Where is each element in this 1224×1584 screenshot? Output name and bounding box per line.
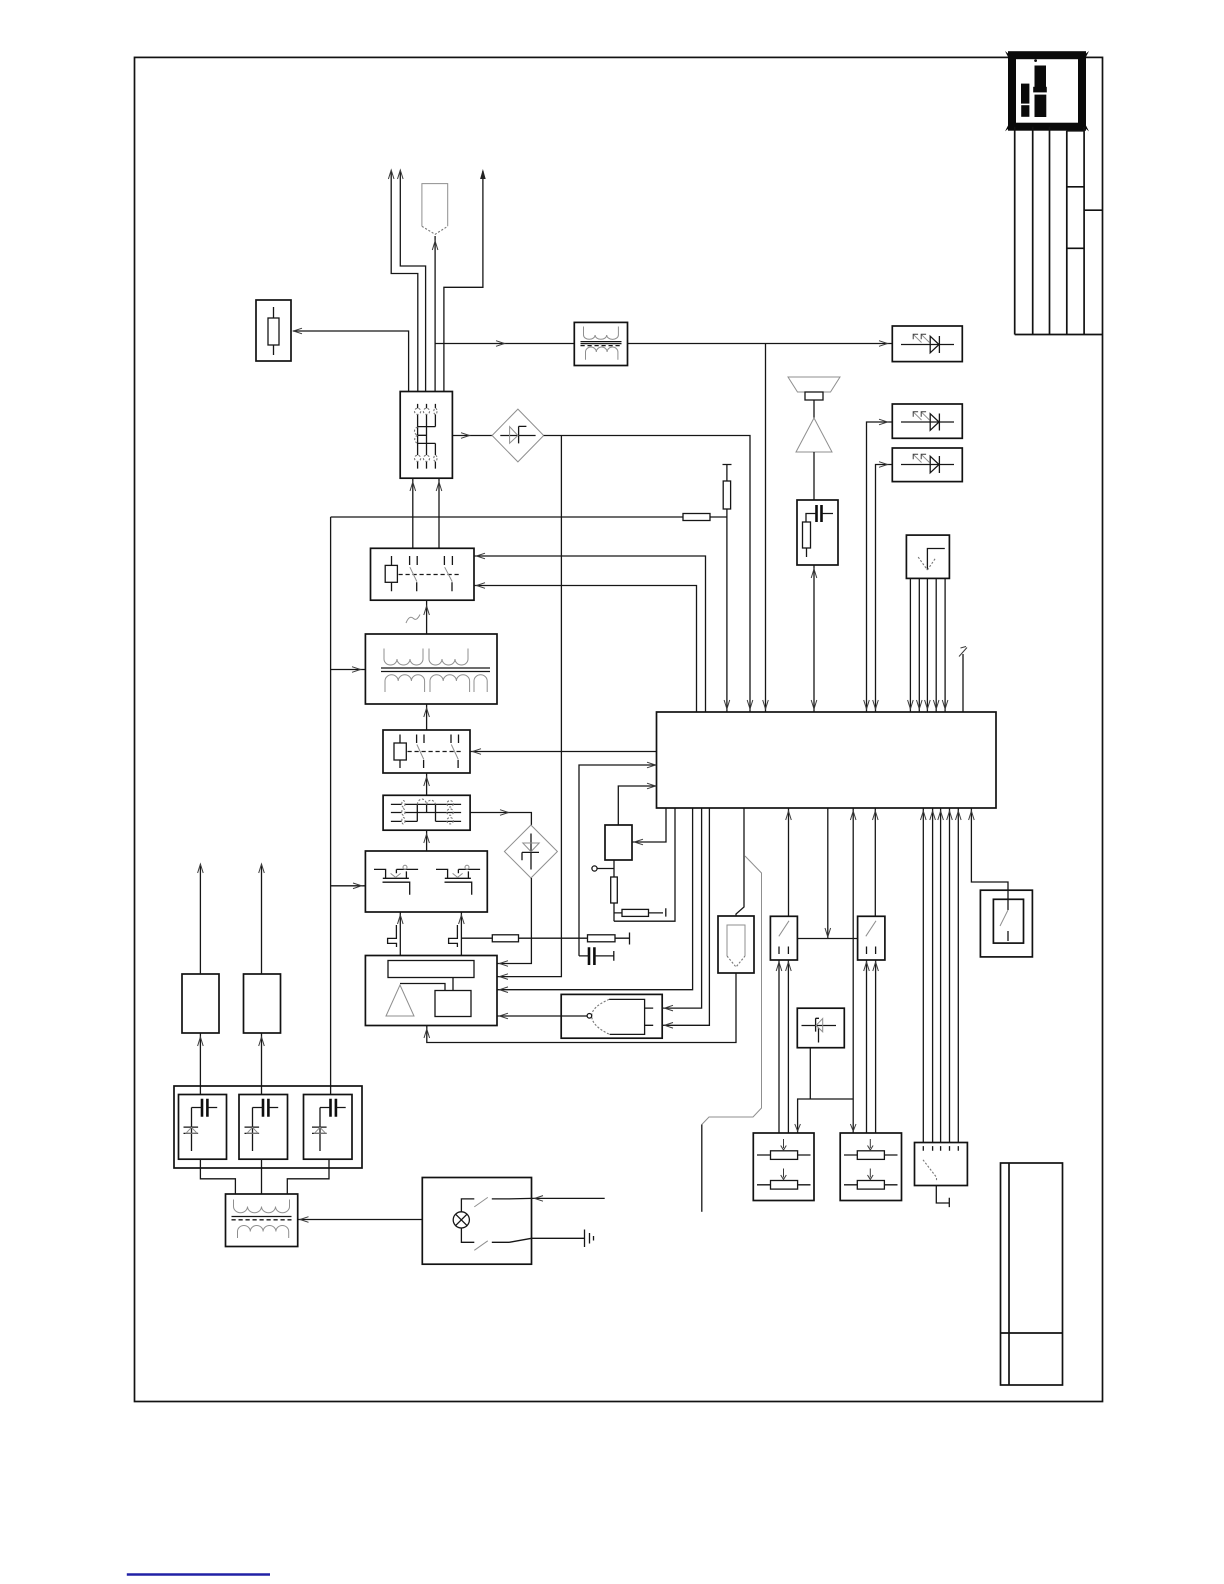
U3 input1 wire to ECU — [662, 808, 701, 1008]
MOSFET 1 symbol — [374, 869, 418, 894]
radical module pin 1 — [909, 578, 911, 712]
radical module pin 4 — [935, 578, 937, 712]
U3 input stubs — [645, 1008, 654, 1025]
cap cell 2 box — [239, 1095, 288, 1160]
T3 primary coil — [234, 1200, 290, 1213]
indicator LED box L3 — [892, 448, 962, 482]
sensor output wire to ECU — [632, 808, 666, 842]
K1 coil — [391, 556, 393, 591]
lamp symbol — [453, 1212, 469, 1228]
arrow down into ECU (x750) — [747, 700, 753, 709]
fuse element — [273, 307, 275, 355]
logo text blob column right — [1035, 66, 1047, 90]
breaker pole 2 — [426, 404, 428, 469]
D arrow onto resistor 2 — [868, 1169, 874, 1180]
ECU left pin wire to cap net (y765) — [579, 765, 657, 956]
gate connector bracket 2 — [449, 925, 458, 947]
sensor divider resistor R8 — [614, 908, 666, 916]
D2 lower wire to driver pin1 — [497, 878, 531, 964]
wire ECU to E pin2 — [932, 808, 934, 1143]
suppression filter rect 2 — [244, 974, 281, 1033]
link wire SA-SB — [797, 938, 857, 940]
wire W1 to roof (left) — [391, 172, 418, 392]
radical module pin 5 — [944, 578, 946, 712]
feedback funnel symbol — [727, 925, 745, 956]
wire breaker to surge diamond D1 — [452, 435, 492, 437]
arrow down at tee — [825, 928, 831, 937]
E bottom terminal wire — [936, 1186, 949, 1208]
U3 input2 wire to ECU — [662, 808, 709, 1025]
wire ECU to link tee — [827, 808, 829, 939]
switch box F inner — [993, 899, 1023, 943]
logo text blob column left — [1021, 84, 1029, 104]
arrow right into L2 — [879, 419, 888, 425]
arrow up rect1 — [198, 864, 204, 873]
arrow right on phase wire — [496, 341, 505, 347]
capacitor bank outer box — [174, 1086, 362, 1168]
wire W3 to roof (right) — [444, 171, 483, 392]
main control unit ECU box — [657, 712, 997, 808]
arrow down into ECU (x765.5) — [763, 700, 769, 709]
arrow up into funnel — [432, 241, 438, 250]
title sidebar cell divider 4b — [1067, 247, 1084, 249]
P1 row 3 — [391, 820, 461, 822]
decoupling capacitor C2 — [589, 947, 594, 965]
arrow up into ECU (E1) — [921, 811, 927, 820]
arrow up into SA bottom 1 — [776, 962, 782, 971]
L1 diode symbol — [901, 336, 954, 353]
arrow right into LED1 — [879, 341, 888, 347]
ground wire — [532, 1237, 585, 1239]
C arrow onto resistor 2 — [781, 1169, 787, 1180]
K1 contact 1 — [410, 556, 418, 591]
SA bottom stubs — [779, 947, 788, 955]
resistor load box D — [840, 1133, 901, 1201]
U2 amp triangle — [386, 985, 414, 1016]
breaker coil arcs — [414, 427, 417, 443]
arrow left into fuse — [294, 328, 303, 334]
SB output wire 1 — [866, 960, 868, 1133]
U2 inner block — [435, 991, 471, 1017]
arrow up into K2 bottom — [424, 777, 430, 786]
U3 output bubble — [587, 1014, 592, 1019]
pull-up resistor R4 — [723, 465, 732, 713]
T2 core lines — [381, 668, 490, 672]
L1 emission arrows — [914, 335, 922, 343]
gate driver box U2 — [365, 956, 497, 1026]
wire D1 to ECU riser — [544, 436, 750, 713]
fuse box F1 — [256, 300, 291, 361]
K1 dashed actuator line — [399, 574, 460, 576]
arrow up into SB bottom 1 — [864, 962, 870, 971]
T1 core lines — [581, 342, 622, 344]
arrow right into L3 — [879, 462, 888, 468]
breaker pole 1 — [417, 404, 419, 469]
switch box SB — [858, 916, 885, 960]
connector box E — [915, 1143, 968, 1186]
arrow up into K1 bottom — [424, 606, 430, 615]
rect1 to cap bank wire — [199, 1033, 201, 1095]
SA switch diagonal — [779, 921, 789, 937]
K2 control wire to ECU left — [470, 751, 657, 753]
speaker horn — [788, 377, 840, 392]
K2 contact 1 — [417, 735, 424, 769]
D arrow onto resistor 1 — [868, 1139, 874, 1150]
contactor K1 box — [371, 548, 475, 600]
wire fuse to breaker — [293, 331, 409, 392]
P1 coil arcs — [417, 799, 435, 804]
T3 core lines — [232, 1216, 292, 1218]
SB output wire 2 — [875, 960, 877, 1133]
gate resistor chain R5 R6 — [461, 933, 629, 945]
T1 secondary coil — [586, 347, 618, 360]
arrow right into T2 — [352, 667, 361, 673]
wire K1 to filter T2 — [426, 600, 428, 634]
arrow down into box C — [795, 1124, 801, 1131]
filter transformer T2 box — [365, 634, 497, 704]
arrow up into ECU (E2) — [930, 811, 936, 820]
cap cell 3 box — [304, 1095, 353, 1160]
wire ECU to funnel box — [736, 808, 744, 916]
arrow down into ECU (x814) — [811, 700, 817, 709]
wire into T2 left — [331, 669, 366, 671]
title sidebar bottom line — [1015, 334, 1103, 336]
main vertical from D1 to driver pin2 — [497, 436, 561, 977]
changeover plug box P1 — [383, 795, 470, 830]
radical module pin 2 — [918, 578, 920, 712]
L2 diode symbol — [901, 414, 954, 431]
title sidebar column line 1 — [1014, 127, 1016, 335]
T2 primary coil — [384, 649, 468, 666]
wire ECU to E pin4 — [949, 808, 951, 1143]
arrow down pin4 — [933, 700, 939, 709]
sensor divider resistor R7 — [613, 860, 615, 921]
C resistor 2 — [757, 1184, 811, 1186]
switch box F outer — [980, 890, 1032, 957]
arrow down pin3 — [925, 700, 931, 709]
arrow left into U3 input1 — [665, 1005, 674, 1011]
wire K2 to plug box — [426, 773, 428, 795]
arrow right into MOSFET box — [353, 883, 362, 889]
arrow left into T3 — [300, 1217, 309, 1223]
wire T3 to lamp box — [298, 1219, 423, 1221]
lamp bottom switch — [461, 1228, 531, 1242]
bus vertical x331 — [330, 517, 332, 1095]
T3 secondary coil — [238, 1225, 289, 1238]
RC cap leads — [806, 514, 833, 523]
arrow right into D1 — [461, 433, 470, 439]
arrow up into rect1 bottom — [198, 1037, 204, 1046]
ECU left pin wire to sensor (y786) — [618, 786, 656, 825]
arrow down pin5 — [942, 700, 948, 709]
wire P1 to diamond D2 — [470, 813, 531, 826]
rect2 top arrow wire — [261, 866, 263, 974]
blue footer line — [127, 1573, 270, 1575]
wire ECU to E pin1 — [922, 808, 924, 1143]
arrow up breaker out 2 — [436, 482, 442, 491]
D1 zener diode — [500, 426, 535, 443]
funnel return wire to driver bottom — [427, 973, 736, 1043]
arrow up gate wire 1 — [398, 915, 404, 924]
wire from funnel down — [434, 236, 436, 392]
gate connector bracket 1 — [388, 925, 397, 947]
cell2 zener — [245, 1108, 260, 1152]
logo dot — [1034, 59, 1037, 62]
arrow up into ECU (E5) — [956, 811, 962, 820]
cell2 capacitor — [263, 1099, 268, 1117]
arrow up into ECU (x875.3) — [873, 811, 879, 820]
wire ECU to SA top — [788, 808, 790, 916]
title sidebar column 4 top edge — [1067, 130, 1084, 132]
lamp box output wire — [532, 1197, 605, 1199]
arrow up into ECU (E3) — [938, 811, 944, 820]
wire ECU to E pin5 — [957, 808, 959, 1143]
wire ECU to SB top — [874, 808, 876, 916]
page border frame — [135, 57, 1103, 1401]
C resistor 1 — [757, 1154, 811, 1156]
logo corner mark bottom-left — [1005, 125, 1011, 132]
lamp top switch — [461, 1198, 531, 1211]
squiggle mark — [406, 615, 420, 624]
MOSFET module box — [365, 851, 487, 912]
arrow up W3 — [480, 169, 486, 179]
arrow up into T2 bottom — [424, 708, 430, 717]
funnel symbol (sensor horn) — [422, 184, 448, 227]
arrow left into driver pin1 — [500, 961, 509, 967]
T1 primary coil — [584, 327, 619, 340]
arrow up gate wire 2 — [459, 915, 465, 924]
E switch diagonal — [923, 1160, 937, 1181]
triac bottom wire — [798, 1048, 854, 1133]
radical symbol — [927, 549, 944, 571]
contactor K2 box — [383, 730, 470, 773]
feedback funnel box — [718, 916, 754, 973]
enable wire into MOSFET left — [331, 885, 366, 887]
arrow left into driver pin4 — [500, 1013, 509, 1019]
triac module box — [797, 1008, 844, 1047]
rect1 top arrow wire — [199, 866, 201, 974]
surge suppressor diamond D1 — [492, 409, 544, 462]
arrow up breaker out 1 — [410, 482, 416, 491]
wire P1 to MOSFET box — [426, 830, 428, 851]
breaker output wire 1 — [412, 478, 414, 548]
breaker output wire 2 — [438, 478, 440, 548]
breaker crossover links — [418, 427, 436, 444]
RC lead down — [806, 548, 808, 557]
F switch — [1007, 899, 1009, 941]
L2 emission arrows — [914, 412, 922, 420]
title sidebar column line 2 — [1032, 127, 1034, 335]
arrow left into driver pin3 — [500, 987, 509, 993]
arrow up into ECU (x853.2) — [850, 811, 856, 820]
arrow down pin1 — [908, 700, 914, 709]
K2 coil — [399, 735, 401, 769]
title sidebar column line 4 — [1066, 131, 1068, 335]
L3 diode symbol — [901, 456, 954, 473]
suppression filter rect 1 — [182, 974, 219, 1033]
K1 feed wire B to ECU — [474, 586, 697, 713]
logo corner mark top-left — [1005, 51, 1011, 58]
arrow right into ECU (y765) — [647, 762, 656, 768]
U2 link lines — [400, 978, 453, 991]
arrow left into U3 input2 — [665, 1023, 674, 1029]
cell1 capacitor — [202, 1099, 207, 1117]
arrow down into ECU (x866.5) — [864, 700, 870, 709]
sensor net return to ECU — [614, 808, 675, 921]
T1 core hatch — [581, 345, 622, 347]
gate wire 2 — [460, 912, 462, 956]
wire ECU to L3 — [876, 465, 893, 713]
wire speaker to amp — [813, 400, 815, 418]
surge suppressor diamond D2 — [504, 825, 557, 878]
arrow up W2 — [398, 170, 404, 179]
speaker driver rect — [805, 392, 823, 400]
L3 emission arrows — [914, 455, 922, 463]
arrow up into SB bottom 2 — [873, 962, 879, 971]
arrow up into P1 bottom — [424, 834, 430, 843]
wire W2 to roof — [400, 172, 425, 392]
cell3 zener — [312, 1108, 327, 1152]
T2 secondary coil — [385, 675, 487, 692]
P1 link verticals — [417, 804, 435, 821]
arrow left into sensor — [635, 839, 644, 845]
arrow down into ECU (x875.5) — [873, 700, 879, 709]
U3 gate body — [609, 999, 645, 1034]
notes box inner vertical — [1008, 1163, 1010, 1385]
triac symbol — [802, 1018, 837, 1042]
arrow down into box D — [850, 1124, 856, 1131]
D2 zener diode — [522, 834, 539, 870]
arrow up into RC box bottom — [811, 569, 817, 578]
wire amp to coupling box — [813, 452, 815, 500]
E pin stubs — [923, 1146, 958, 1151]
transformer T1 box — [574, 322, 627, 365]
bus slash mark — [959, 647, 967, 657]
sensor divider: terminal circle — [592, 866, 597, 871]
coupling RC box — [797, 500, 838, 565]
tap riser to ECU (x765.5) — [765, 344, 767, 713]
stub wire with bus slash — [962, 654, 964, 712]
radical-sign module box — [906, 535, 949, 578]
arrow up into rect2 bottom — [259, 1037, 265, 1046]
C arrow onto resistor 1 — [781, 1139, 787, 1150]
long wire ECU to box D — [852, 808, 854, 1133]
arrow left into K1 (wire A) — [477, 553, 486, 559]
lamp switch box — [422, 1178, 531, 1265]
arrow left into driver pin2 — [500, 974, 509, 980]
arrow right on P1 wire — [500, 810, 509, 816]
ground symbol — [585, 1230, 594, 1248]
arrow down pin2 — [917, 700, 923, 709]
current sensor box — [605, 825, 632, 860]
arrow down into ECU (x727) — [724, 700, 730, 709]
bus wire y517 with resistor R3 — [331, 516, 727, 518]
U3 output wire to driver — [497, 1015, 587, 1017]
wire T1 to LED1 with tap — [628, 343, 893, 345]
logo corner mark top-right — [1083, 51, 1089, 58]
wire ECU to L2 — [867, 422, 893, 712]
D resistor 2 — [844, 1184, 898, 1186]
cell3 capacitor — [331, 1099, 336, 1117]
arrow up into SA bottom 2 — [786, 962, 792, 971]
arrow up W1 — [388, 170, 394, 179]
arrow left into K1 (wire B) — [477, 583, 486, 589]
logo box (title block) — [1012, 55, 1082, 127]
arrow up into ECU (x788.5) — [786, 811, 792, 820]
amplifier triangle — [796, 418, 832, 452]
K2 contact 2 — [451, 735, 459, 769]
cap bank output bus — [200, 1159, 329, 1194]
gray harness path — [702, 856, 762, 1125]
indicator LED box L1 — [892, 326, 962, 362]
P1 row 1 — [391, 803, 461, 805]
output transformer T3 box — [226, 1194, 298, 1247]
arrow up into driver bottom — [424, 1029, 430, 1038]
wire T2 to contactor K2 — [426, 704, 428, 730]
arrow up rect2 — [259, 864, 265, 873]
wire ECU to F — [971, 808, 1008, 899]
SB switch diagonal — [866, 921, 876, 937]
title sidebar cell divider 5 — [1084, 209, 1102, 211]
D resistor 1 — [844, 1154, 898, 1156]
notes box bottom right — [1001, 1163, 1063, 1385]
arrow right into ECU (y786) — [647, 783, 656, 789]
SA output wire 2 — [787, 960, 789, 1133]
U2 pin3 wire to ECU — [497, 808, 693, 990]
MOSFET 2 symbol — [436, 869, 480, 894]
wire ECU to E pin3 — [940, 808, 942, 1143]
switch box SA — [770, 916, 797, 960]
radical module pin 3 — [926, 578, 928, 712]
K2 dashed actuator line — [408, 751, 463, 753]
arrow up into ECU (E4) — [947, 811, 953, 820]
wire RC box to ECU — [813, 565, 815, 712]
breaker pole 2 contacts — [423, 408, 429, 414]
RC cap plates — [817, 505, 822, 522]
U2 inner register rect — [388, 961, 474, 978]
logo corner mark bottom-right — [1083, 125, 1089, 132]
phase wire to transformer T1 — [435, 343, 574, 345]
breaker pole 3 — [434, 404, 436, 469]
cell1 zener — [184, 1108, 199, 1152]
K1 contact 2 — [444, 556, 452, 591]
indicator LED box L2 — [892, 404, 962, 438]
main breaker Q1 — [400, 392, 452, 479]
cap cell 1 box — [179, 1095, 227, 1160]
SA output wire 1 — [778, 960, 780, 1133]
P1 row 2 — [391, 812, 461, 814]
arrow up into ECU (xF) — [969, 811, 975, 820]
title sidebar column line 3 — [1049, 127, 1051, 335]
gate wire 1 — [399, 912, 401, 956]
title sidebar column line 5 — [1083, 127, 1085, 335]
breaker pole 1 contacts — [415, 408, 421, 414]
breaker pole 3 contacts — [434, 408, 437, 414]
title sidebar cell divider 4a — [1067, 186, 1084, 188]
rect2 to cap bank wire — [261, 1033, 263, 1095]
arrow left into K2 — [473, 749, 482, 755]
SB bottom stubs — [867, 947, 876, 955]
arrow left into lamp box — [535, 1196, 544, 1202]
RC resistor — [803, 522, 811, 548]
notes box divider — [1001, 1332, 1063, 1334]
harness tail — [701, 1125, 703, 1212]
resistor load box C — [753, 1133, 814, 1201]
K1 feed wire A to ECU — [474, 556, 706, 712]
NAND gate box U3 — [561, 994, 662, 1038]
